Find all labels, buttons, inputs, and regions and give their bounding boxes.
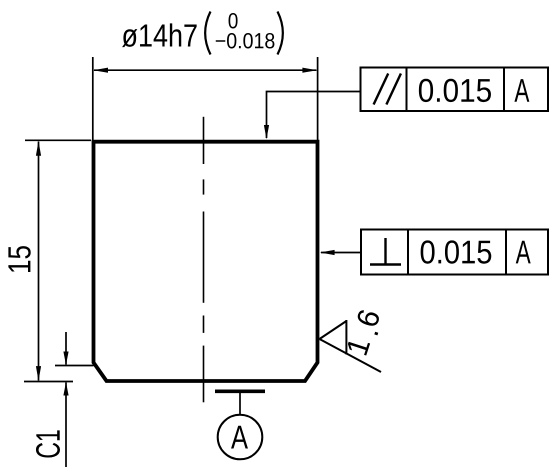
surface finish symbol (apex on right surface) [320,320,382,372]
dimension ø14h7: dimension line [94,69,316,71]
leader arrowhead left [320,250,335,255]
tolerance upper: 0 [229,13,238,29]
leader from perpendicularity frame to right surface [321,252,361,254]
closing parenthesis [278,12,283,55]
dimension 15: extension line top [25,139,91,141]
datum letter A [231,426,248,449]
arrowhead right [302,68,317,73]
dimension 15: extension line bottom [24,381,73,383]
perpendicularity tolerance value 0.015 [421,240,492,263]
C1 upper arrowhead (pointing down) [63,352,68,366]
datum circle [218,415,263,460]
opening parenthesis [205,12,210,55]
part outline (cylindrical pin, side view) [94,142,318,381]
arrowhead up [36,141,41,156]
parallelism feature control frame [361,68,549,112]
dimension ø14h7: extension line right [317,57,319,141]
dimension text 15 [8,246,30,272]
chamfer text C1 [36,430,60,457]
dimension 15: dimension line [38,142,40,381]
tolerance lower: -0.018 [216,33,275,49]
C1 lower arrow line [65,383,67,468]
leader from parallelism frame to top surface [267,92,361,139]
parallelism tolerance value 0.015 [419,79,491,102]
perpendicularity datum letter A [516,241,531,264]
C1 upper arrow line [65,332,67,365]
perpendicularity feature control frame [361,230,548,275]
dimension text ø14h7 [122,23,197,47]
C1 lower arrowhead (pointing up) [63,382,68,396]
centerline [203,117,205,403]
arrowhead left [93,68,108,73]
chamfer dimension C1: extension line [55,365,94,367]
datum A: thick datum bar on bottom face [215,389,265,393]
parallelism symbol // [374,74,401,105]
dimension ø14h7: extension line left [92,57,94,141]
arrowhead down [36,366,41,381]
leader arrowhead down [264,125,269,139]
perpendicularity symbol [370,238,401,265]
datum leader line [239,393,241,415]
roughness value 1.6 [346,337,370,355]
parallelism datum letter A [514,79,529,102]
